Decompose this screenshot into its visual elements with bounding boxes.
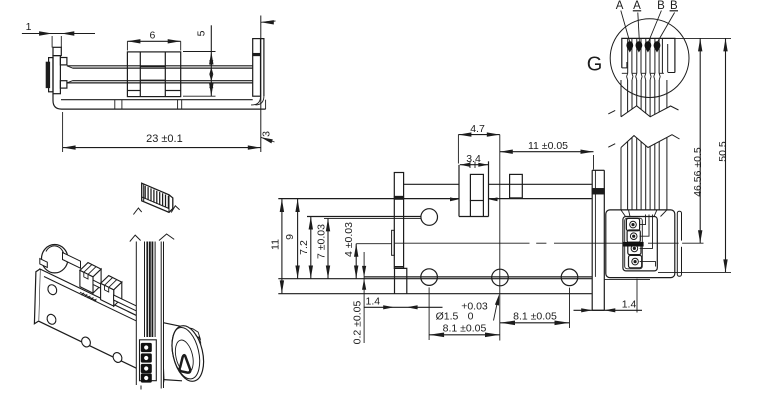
svg-text:0: 0: [468, 311, 474, 323]
svg-text:3: 3: [260, 131, 272, 137]
svg-text:B: B: [657, 0, 665, 12]
svg-text:11 ±0.05: 11 ±0.05: [528, 140, 568, 152]
svg-text:8.1 ±0.05: 8.1 ±0.05: [443, 322, 487, 334]
svg-text:1.4: 1.4: [365, 295, 380, 307]
svg-text:A: A: [633, 0, 641, 12]
svg-text:Ø1.5: Ø1.5: [436, 311, 459, 323]
svg-text:46.56 ±0.5: 46.56 ±0.5: [692, 147, 704, 197]
svg-text:3.4: 3.4: [466, 153, 481, 165]
svg-text:1: 1: [26, 21, 32, 33]
svg-text:B: B: [670, 0, 678, 12]
svg-text:4 ±0.03: 4 ±0.03: [343, 222, 355, 257]
svg-text:50.5: 50.5: [717, 141, 729, 162]
svg-text:11: 11: [270, 239, 282, 250]
svg-text:4.7: 4.7: [470, 123, 485, 135]
svg-text:+0.03: +0.03: [461, 301, 488, 313]
svg-text:9: 9: [284, 234, 296, 240]
svg-text:0.2 ±0.05: 0.2 ±0.05: [352, 300, 364, 344]
svg-text:6: 6: [149, 30, 155, 42]
svg-text:7 ±0.03: 7 ±0.03: [316, 224, 328, 259]
svg-text:A: A: [616, 0, 624, 12]
svg-text:G: G: [587, 54, 603, 76]
svg-text:23 ±0.1: 23 ±0.1: [146, 133, 183, 145]
svg-text:7.2: 7.2: [298, 240, 310, 255]
svg-text:8.1 ±0.05: 8.1 ±0.05: [513, 310, 557, 322]
svg-text:5: 5: [196, 30, 208, 36]
svg-text:1.4: 1.4: [622, 298, 637, 310]
